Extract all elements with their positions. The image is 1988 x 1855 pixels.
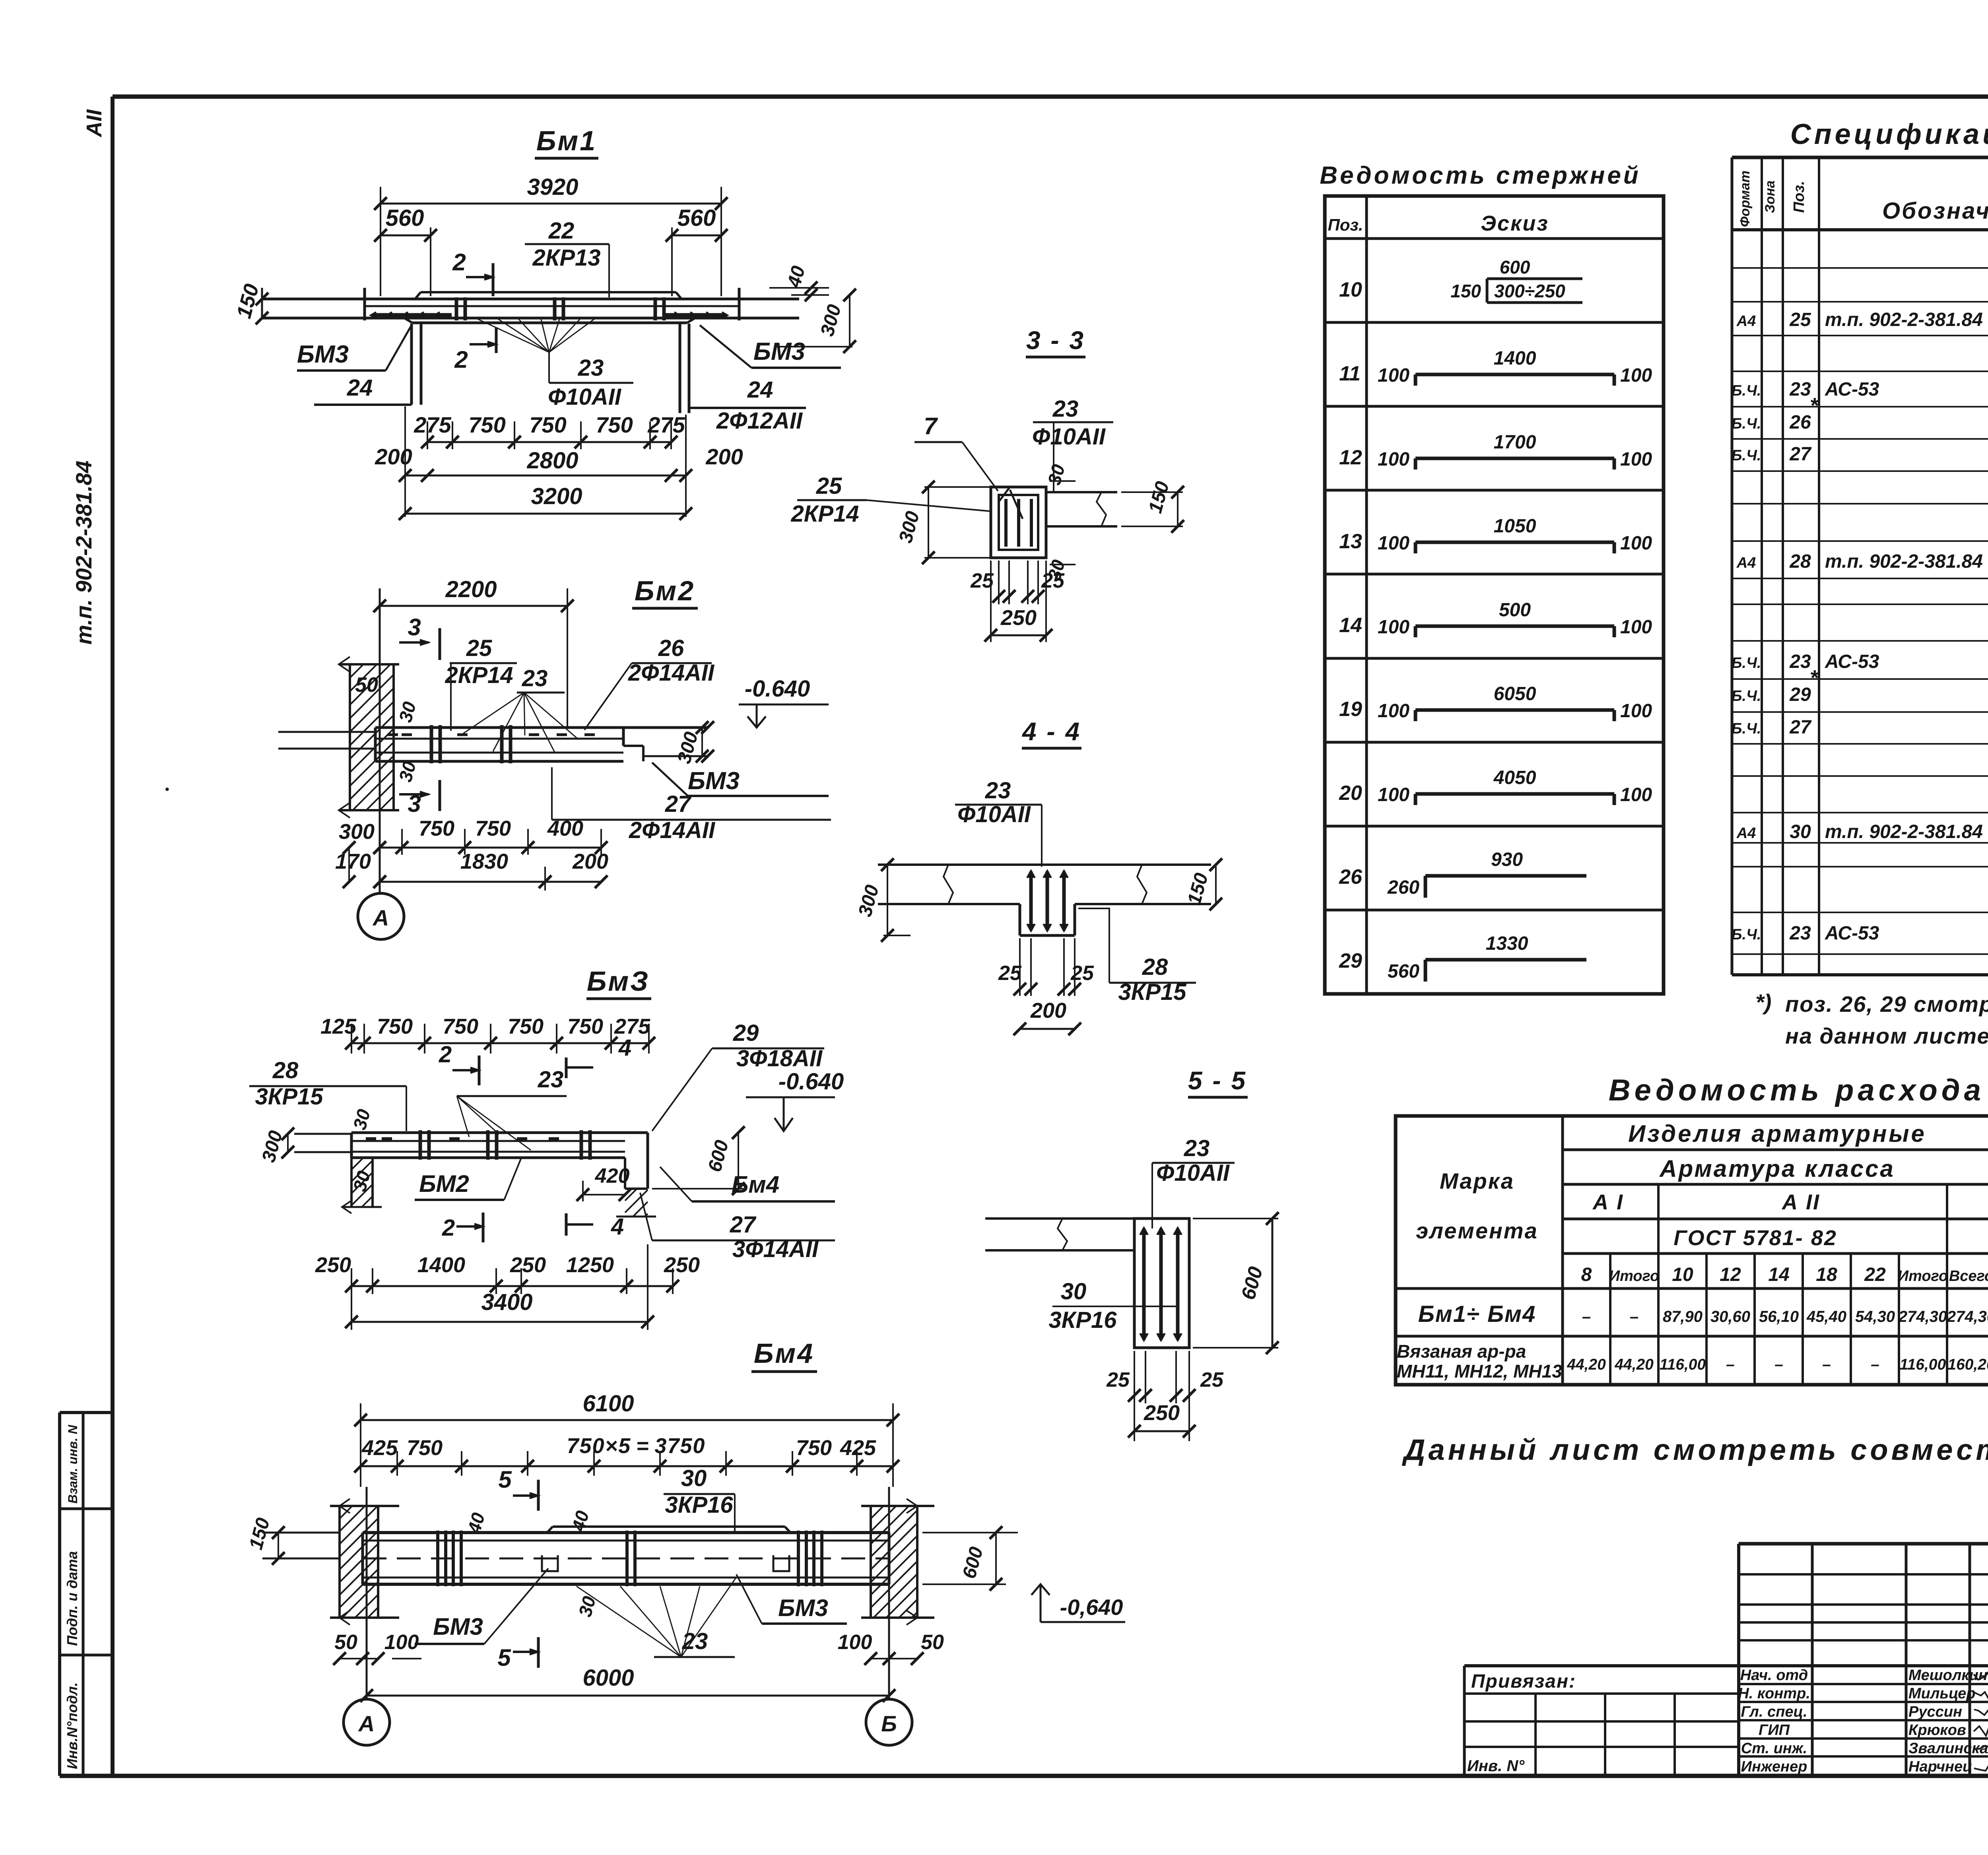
section 5-5 dim 600: [1193, 1212, 1279, 1354]
svg-text:2КР13: 2КР13: [532, 245, 600, 271]
svg-text:23: 23: [1052, 396, 1079, 422]
beam Бм1 right dims 40 300: [769, 264, 856, 353]
svg-text:Б.Ч.: Б.Ч.: [1732, 382, 1761, 399]
steel table data row Бм1-Бм4: [1418, 1301, 1988, 1341]
beam Бм4 dim 6000: [360, 1665, 895, 1702]
svg-text:28: 28: [1142, 954, 1168, 980]
svg-text:*): *): [1755, 990, 1771, 1015]
svg-text:150: 150: [1450, 281, 1481, 301]
beam Бм3 section mark 2 upper: [439, 1042, 479, 1085]
beam Бм4 label БМ3 left: [415, 1568, 548, 1644]
svg-text:750: 750: [567, 1015, 603, 1038]
section 3-3 title: [1026, 326, 1085, 357]
beam Бм1 title: [535, 125, 598, 158]
svg-text:1400: 1400: [417, 1253, 465, 1277]
title block grid: [1739, 1544, 1988, 1776]
svg-text:Марка: Марка: [1440, 1168, 1514, 1193]
svg-text:4050: 4050: [1493, 767, 1536, 788]
svg-text:18: 18: [1816, 1264, 1837, 1285]
svg-text:2Ф14АII: 2Ф14АII: [628, 660, 715, 686]
svg-text:560: 560: [386, 205, 424, 231]
bars list header: [1328, 212, 1549, 235]
svg-text:АС-53: АС-53: [1825, 651, 1879, 672]
svg-text:2: 2: [442, 1215, 455, 1241]
svg-text:27: 27: [1789, 717, 1812, 738]
beam Бм3 label БМ2: [415, 1159, 521, 1200]
svg-text:Бм4: Бм4: [754, 1338, 814, 1369]
svg-text:170: 170: [335, 850, 371, 873]
bar sketch poz 29: [1339, 933, 1586, 982]
svg-text:1700: 1700: [1494, 432, 1536, 453]
svg-text:300: 300: [895, 509, 924, 545]
beam Бм1 label 24 right 2Ф12АII: [689, 377, 806, 434]
section 4-4 slab: [878, 865, 1211, 904]
svg-text:200: 200: [572, 850, 608, 873]
svg-text:100: 100: [384, 1631, 419, 1654]
svg-text:-0.640: -0.640: [779, 1069, 844, 1094]
svg-text:23: 23: [1789, 923, 1811, 944]
svg-text:т.п. 902-2-381.84 КЖИ-КР14: т.п. 902-2-381.84 КЖИ-КР14: [1825, 309, 1988, 330]
svg-text:87,90: 87,90: [1663, 1308, 1703, 1325]
svg-text:100: 100: [1378, 700, 1409, 722]
privyazan table: [1464, 1666, 1739, 1776]
svg-text:12: 12: [1720, 1264, 1741, 1285]
svg-text:54,30: 54,30: [1855, 1308, 1895, 1325]
svg-text:3: 3: [408, 614, 421, 640]
svg-text:23: 23: [522, 666, 548, 691]
svg-text:АС-53: АС-53: [1825, 379, 1879, 400]
beam Бм3 dims 30 30: [349, 1107, 375, 1193]
svg-text:560: 560: [1388, 961, 1419, 982]
svg-text:275: 275: [414, 412, 451, 437]
svg-text:Ф10АII: Ф10АII: [548, 384, 622, 410]
beam Бм3 title: [586, 966, 651, 999]
svg-text:930: 930: [1491, 849, 1523, 870]
beam Бм2 section mark 3 upper: [399, 614, 440, 660]
beam Бм1 left extension 150: [232, 281, 268, 324]
beam Бм4 label 23 fan: [577, 1578, 736, 1657]
svg-text:27: 27: [730, 1212, 757, 1238]
svg-text:500: 500: [1499, 600, 1531, 621]
svg-text:Подп. и дата: Подп. и дата: [64, 1551, 80, 1646]
svg-text:10: 10: [1339, 278, 1362, 301]
svg-text:т.п. 902-2-381.84: т.п. 902-2-381.84: [1825, 821, 1983, 842]
beam Бм1 dim 3200: [399, 483, 692, 520]
svg-text:Н. контр.: Н. контр.: [1738, 1685, 1810, 1702]
svg-text:150: 150: [245, 1515, 274, 1552]
beam Бм4 dims 50 100 left: [333, 1631, 421, 1665]
svg-text:14: 14: [1768, 1264, 1789, 1285]
svg-text:Б.Ч.: Б.Ч.: [1732, 415, 1761, 432]
svg-text:5: 5: [497, 1644, 511, 1671]
beam Бм1 section mark 2 lower: [454, 327, 496, 373]
svg-text:Бм1: Бм1: [536, 125, 597, 156]
svg-text:750: 750: [377, 1015, 413, 1038]
svg-text:24: 24: [747, 377, 773, 403]
svg-text:Инв.N°подл.: Инв.N°подл.: [64, 1682, 80, 1769]
svg-text:3200: 3200: [531, 483, 582, 509]
section 3-3 body: [991, 487, 1117, 558]
svg-text:30: 30: [349, 1107, 375, 1132]
svg-text:750: 750: [407, 1436, 443, 1460]
svg-text:30: 30: [681, 1465, 707, 1491]
svg-text:ГОСТ 5781- 82: ГОСТ 5781- 82: [1673, 1226, 1837, 1250]
beam Бм3 dim 600 right: [652, 1126, 745, 1195]
svg-text:26: 26: [1339, 865, 1363, 889]
svg-text:116,00: 116,00: [1660, 1356, 1706, 1373]
beam Бм2 stirrups: [388, 725, 595, 763]
beam Бм3 top dims 125 750x4 275: [320, 1015, 655, 1054]
section 3-3 label 23 Ф10АII: [1032, 396, 1113, 493]
svg-text:6050: 6050: [1494, 683, 1536, 704]
svg-text:10: 10: [1672, 1264, 1693, 1285]
svg-text:Поз.: Поз.: [1328, 215, 1363, 234]
beam Бм3 dim 300 left: [258, 1127, 294, 1165]
beam Бм1 dim 560 right: [666, 205, 728, 296]
beam Бм3 label 23 fan: [457, 1067, 567, 1150]
svg-text:Нач. отд: Нач. отд: [1740, 1667, 1808, 1684]
svg-text:Руссин: Руссин: [1908, 1704, 1962, 1720]
svg-text:250: 250: [664, 1253, 700, 1277]
svg-text:1400: 1400: [1494, 348, 1536, 369]
svg-text:11: 11: [1339, 362, 1361, 385]
svg-text:А: А: [358, 1711, 375, 1736]
svg-text:–: –: [1871, 1356, 1879, 1373]
svg-text:1830: 1830: [460, 850, 508, 873]
svg-text:24: 24: [347, 375, 373, 401]
svg-text:300: 300: [339, 820, 375, 844]
beam Бм1 label БМ3 right: [700, 325, 841, 368]
beam Бм3 label Бм4 right: [660, 1167, 835, 1201]
beam Бм4 wall hatch left: [330, 1499, 399, 1625]
svg-text:Ф10АII: Ф10АII: [1032, 424, 1106, 450]
svg-text:150: 150: [1184, 871, 1212, 907]
beam Бм4 dims 40 40: [464, 1508, 593, 1536]
svg-text:2200: 2200: [445, 576, 497, 602]
svg-text:750: 750: [443, 1015, 478, 1038]
section 3-3 label 7: [914, 413, 998, 491]
specification table grid: [1732, 157, 1988, 975]
svg-text:Инженер: Инженер: [1741, 1758, 1807, 1775]
svg-text:29: 29: [1339, 949, 1362, 972]
bar sketch poz 13: [1339, 516, 1652, 554]
svg-text:*: *: [1809, 666, 1819, 690]
beam Бм3 wall hatch right: [616, 1189, 656, 1217]
svg-text:АС-53: АС-53: [1825, 923, 1879, 944]
section 4-4 label 28 3КР15: [1078, 908, 1196, 1005]
svg-text:3КР16: 3КР16: [665, 1492, 733, 1518]
svg-text:Спецификация элементов плиты: Спецификация элементов плиты Пм1: [1790, 118, 1988, 150]
svg-text:3 - 3: 3 - 3: [1026, 326, 1085, 355]
svg-text:750: 750: [508, 1015, 544, 1038]
svg-text:Всего: Всего: [1949, 1268, 1988, 1285]
svg-text:–: –: [1726, 1356, 1735, 1373]
beam Бм1 supports: [412, 324, 689, 413]
svg-text:100: 100: [1620, 449, 1652, 470]
svg-text:260: 260: [1387, 877, 1419, 898]
section 3-3 dims 25 25 250: [970, 561, 1065, 642]
svg-text:т.п. 902-2-381.84: т.п. 902-2-381.84: [1825, 551, 1983, 572]
beam Бм2 dim 2200: [373, 576, 574, 728]
bar sketch poz 20: [1339, 767, 1652, 805]
spec row 27 е650: [1732, 442, 1988, 465]
bar sketch poz 19: [1339, 683, 1652, 722]
svg-text:5: 5: [498, 1466, 512, 1493]
beam Бм3 body: [294, 1133, 648, 1189]
svg-text:30: 30: [1044, 462, 1069, 487]
svg-text:А4: А4: [1736, 825, 1756, 842]
svg-text:25: 25: [816, 473, 842, 499]
svg-text:28: 28: [1789, 551, 1811, 572]
beam Бм4 label 30 3КР16: [664, 1465, 735, 1531]
svg-text:30,60: 30,60: [1710, 1308, 1750, 1325]
svg-text:1250: 1250: [566, 1253, 614, 1277]
svg-text:*: *: [1809, 394, 1819, 417]
beam Бм2 label 23 fan: [463, 666, 579, 752]
beam Бм3 label 28 3КР15: [249, 1058, 406, 1131]
svg-text:Арматура класса: Арматура класса: [1659, 1155, 1895, 1182]
svg-text:100: 100: [1620, 533, 1652, 554]
svg-text:Мешолкин: Мешолкин: [1908, 1667, 1988, 1684]
svg-text:30: 30: [349, 1168, 375, 1193]
svg-text:250: 250: [1143, 1401, 1180, 1425]
beam Бм3 section mark 4 lower: [566, 1213, 624, 1240]
svg-text:25: 25: [1106, 1368, 1130, 1391]
spec row 29 Ф18: [1732, 666, 1988, 705]
bar sketch poz 26: [1339, 849, 1586, 898]
section 3-3 dim 300: [895, 481, 991, 564]
section 4-4 label 23 Ф10АII: [955, 778, 1042, 867]
section 3-3 dim 150: [1121, 479, 1184, 533]
svg-text:3400: 3400: [481, 1289, 532, 1315]
beam Бм1 dim 3920: [374, 174, 728, 296]
svg-text:6100: 6100: [582, 1391, 634, 1416]
svg-text:100: 100: [1620, 700, 1652, 722]
svg-text:274,30: 274,30: [1947, 1308, 1988, 1325]
beam Бм4 section mark 5 upper: [498, 1466, 538, 1511]
bar sketch poz 12: [1339, 432, 1652, 470]
svg-text:44,20: 44,20: [1567, 1356, 1606, 1373]
beam Бм3 label 29 3Ф18АII: [652, 1020, 824, 1131]
spec row 25 каркас КР14: [1736, 308, 1988, 330]
svg-text:22: 22: [1864, 1264, 1886, 1285]
svg-text:2: 2: [454, 346, 468, 373]
section 5-5 title: [1188, 1066, 1248, 1097]
svg-text:-0,640: -0,640: [1060, 1595, 1123, 1620]
svg-text:275: 275: [647, 412, 685, 437]
svg-text:100: 100: [1620, 617, 1652, 638]
svg-text:7: 7: [924, 413, 938, 439]
section 5-5 label 23 Ф10АII: [1152, 1135, 1235, 1228]
svg-text:БМ2: БМ2: [419, 1170, 469, 1197]
steel table subheader numbers: [1581, 1264, 1988, 1285]
svg-text:2: 2: [439, 1042, 452, 1067]
attribute column frame: [60, 1413, 113, 1776]
svg-text:Ф10АII: Ф10АII: [1156, 1160, 1230, 1186]
beam Бм3 section mark 4 upper: [566, 1035, 631, 1078]
beam Бм2 label БмЗ right: [652, 763, 829, 796]
svg-text:поз. 26, 29 смотреть ведомос: поз. 26, 29 смотреть ведомость стержней: [1785, 992, 1988, 1017]
svg-text:Б.Ч.: Б.Ч.: [1732, 720, 1761, 737]
svg-text:Изделия арматурные: Изделия арматурные: [1628, 1120, 1926, 1147]
svg-text:3Ф18АII: 3Ф18АII: [736, 1046, 823, 1071]
beam Бм4 title: [751, 1338, 817, 1372]
svg-text:6000: 6000: [582, 1665, 634, 1691]
beam Бм2 section mark 3 lower: [399, 780, 440, 817]
svg-text:25: 25: [1041, 569, 1065, 592]
svg-text:600: 600: [1500, 257, 1530, 277]
svg-text:750: 750: [419, 817, 454, 840]
svg-text:600: 600: [704, 1138, 733, 1174]
svg-text:Обозначение: Обозначение: [1882, 198, 1988, 224]
svg-text:А4: А4: [1736, 313, 1756, 330]
svg-text:25: 25: [466, 635, 492, 661]
svg-text:2КР14: 2КР14: [445, 662, 513, 688]
svg-text:элемента: элемента: [1416, 1218, 1538, 1243]
beam Бм4 dim 600 right: [922, 1526, 1018, 1591]
svg-text:МН11, МН12, МН13: МН11, МН12, МН13: [1397, 1361, 1562, 1382]
svg-text:50: 50: [355, 673, 378, 697]
svg-text:Б.Ч.: Б.Ч.: [1732, 447, 1761, 464]
section 5-5 body: [985, 1219, 1189, 1348]
beam Бм4 elevation -0.640: [1031, 1584, 1125, 1622]
svg-text:БМ3: БМ3: [297, 341, 349, 368]
beam Бм3 dim 3400: [345, 1244, 654, 1330]
svg-text:2: 2: [452, 249, 466, 276]
spec row 23 АС-53 Ф10 x16: [1732, 923, 1988, 944]
steel table header texts: [1416, 1120, 1988, 1250]
svg-text:–: –: [1774, 1356, 1783, 1373]
spec row 30 каркас КР16: [1736, 820, 1988, 842]
svg-text:425: 425: [840, 1436, 876, 1460]
section 4-4 beam drop: [1020, 904, 1075, 935]
svg-text:Бм1÷ Бм4: Бм1÷ Бм4: [1418, 1301, 1536, 1327]
section 5-5 bars: [1140, 1228, 1182, 1341]
spec row 28 каркас КР15: [1736, 550, 1988, 572]
beam Бм4 axis circle А: [344, 1699, 390, 1745]
beam Бм1 label 22 2КР13: [525, 218, 609, 297]
svg-text:200: 200: [1030, 999, 1066, 1023]
svg-text:А: А: [372, 905, 389, 930]
beam Бм4 section mark 5 lower: [497, 1637, 538, 1671]
svg-text:13: 13: [1339, 530, 1362, 553]
svg-text:Бм2: Бм2: [635, 575, 695, 606]
section 4-4 bars: [1027, 871, 1068, 931]
svg-text:Крюков: Крюков: [1908, 1722, 1966, 1739]
svg-text:100: 100: [1378, 617, 1409, 638]
svg-text:200: 200: [705, 444, 743, 469]
beam Бм1 section mark 2 upper: [452, 249, 493, 296]
beam Бм4 axis lines: [367, 1487, 889, 1698]
svg-text:БМ3: БМ3: [433, 1613, 483, 1640]
svg-text:БМ3: БМ3: [778, 1595, 828, 1621]
svg-text:3Ф14АII: 3Ф14АII: [732, 1236, 819, 1262]
svg-text:750: 750: [529, 412, 566, 437]
svg-text:–: –: [1630, 1308, 1639, 1325]
beam Бм1 body: [262, 288, 799, 323]
svg-text:27: 27: [1789, 444, 1812, 465]
svg-text:400: 400: [547, 817, 583, 840]
section 4-4 title: [1021, 717, 1081, 748]
svg-text:116,00: 116,00: [1900, 1356, 1946, 1373]
svg-text:25: 25: [1789, 309, 1811, 330]
svg-text:50: 50: [921, 1631, 944, 1654]
svg-text:Бм4: Бм4: [732, 1171, 779, 1198]
svg-text:30: 30: [1061, 1279, 1087, 1304]
svg-text:Взам. инв. N: Взам. инв. N: [66, 1424, 80, 1504]
section 3-3 label 25 2КР14: [790, 473, 991, 527]
beam Бм2 label 27 2Ф14АII: [552, 767, 831, 843]
beam Бм2 axis circle А: [358, 893, 404, 939]
beam Бм3 section mark 2 lower: [442, 1213, 483, 1242]
svg-text:100: 100: [838, 1631, 872, 1654]
svg-text:100: 100: [1620, 784, 1652, 805]
svg-text:Ведомость стержней: Ведомость стержней: [1320, 162, 1640, 189]
svg-text:100: 100: [1378, 365, 1409, 386]
beam Бм3 stirrups: [366, 1130, 590, 1160]
svg-text:5 - 5: 5 - 5: [1188, 1066, 1247, 1095]
svg-text:750×5 = 3750: 750×5 = 3750: [567, 1434, 706, 1458]
beam Бм1 dim row 275 750 750 750 275: [414, 412, 685, 449]
svg-text:100: 100: [1620, 365, 1652, 386]
svg-text:23: 23: [1789, 651, 1811, 672]
beam Бм3 label 27 3Ф14АII: [640, 1193, 835, 1262]
svg-text:Ф10АII: Ф10АII: [957, 801, 1031, 827]
svg-text:А4: А4: [1736, 555, 1756, 571]
svg-text:ГИП: ГИП: [1759, 1722, 1790, 1739]
svg-text:250: 250: [510, 1253, 546, 1277]
bar sketch poz 11: [1339, 348, 1652, 386]
svg-text:250: 250: [1000, 606, 1037, 630]
beam Бм2 body: [278, 721, 714, 763]
svg-text:19: 19: [1339, 698, 1362, 721]
svg-text:100: 100: [1378, 533, 1409, 554]
svg-text:БмЗ: БмЗ: [587, 966, 650, 997]
svg-text:23: 23: [1789, 379, 1811, 400]
svg-text:750: 750: [596, 412, 633, 437]
svg-text:3КР15: 3КР15: [1118, 979, 1186, 1005]
svg-text:750: 750: [796, 1436, 832, 1460]
beam Бм4 dim 6100: [354, 1391, 899, 1487]
beam Бм4 wall hatch right: [861, 1499, 934, 1625]
svg-text:2Ф14АII: 2Ф14АII: [629, 817, 716, 843]
steel table data row вязаная арматура: [1397, 1341, 1988, 1382]
svg-text:425: 425: [361, 1436, 398, 1460]
beam Бм4 dim 150 left: [245, 1515, 340, 1565]
beam Бм2 dim 300 right: [674, 721, 709, 766]
svg-text:22: 22: [548, 218, 575, 244]
beam Бм3 dim 420: [577, 1164, 631, 1201]
svg-text:26: 26: [1789, 412, 1811, 433]
beam Бм4 stirrups: [438, 1531, 822, 1586]
beam Бм1 dim 560 left: [374, 205, 437, 296]
svg-text:Инв. N°: Инв. N°: [1467, 1757, 1525, 1775]
svg-text:25: 25: [998, 962, 1022, 985]
svg-text:-0.640: -0.640: [745, 676, 810, 702]
section 4-4 dims 25 25 200: [998, 938, 1094, 1035]
svg-text:160,20: 160,20: [1947, 1356, 1988, 1373]
beam Бм3 elevation -0.640: [746, 1069, 844, 1131]
spec footnote: [1755, 990, 1988, 1048]
svg-text:4 - 4: 4 - 4: [1021, 717, 1081, 746]
svg-text:23: 23: [985, 778, 1011, 803]
svg-text:300÷250: 300÷250: [1494, 281, 1565, 301]
svg-text:600: 600: [1237, 1264, 1267, 1302]
svg-text:560: 560: [678, 205, 716, 231]
section 4-4 dim 300: [854, 858, 911, 942]
svg-text:14: 14: [1339, 614, 1362, 637]
svg-text:300: 300: [817, 302, 845, 338]
